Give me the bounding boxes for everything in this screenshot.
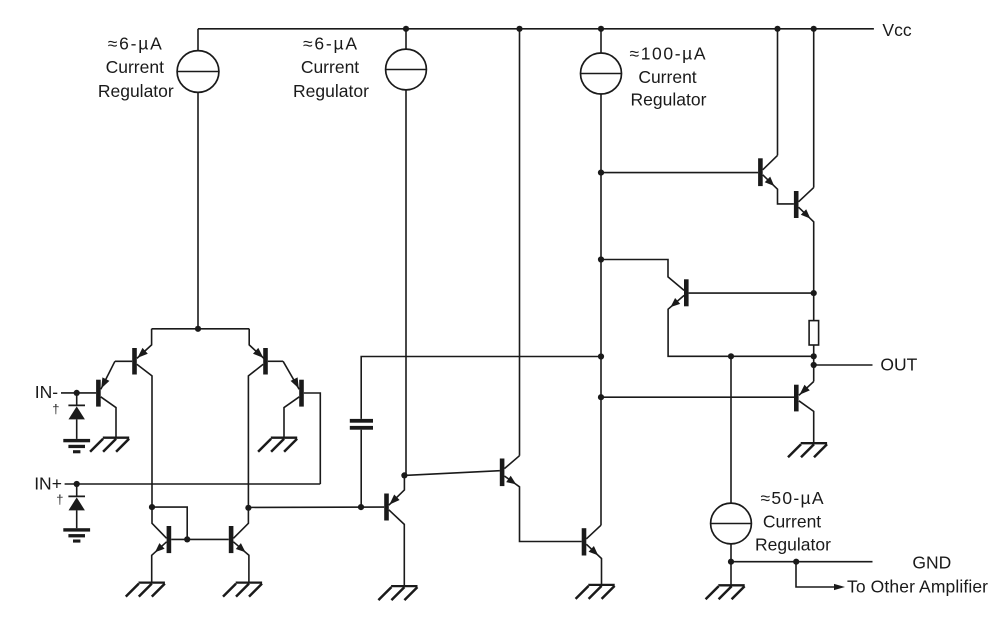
svg-text:†: † [52,401,59,416]
svg-text:≈100-µA: ≈100-µA [630,43,706,63]
svg-text:IN+: IN+ [34,474,62,494]
svg-text:Regulator: Regulator [293,81,369,101]
svg-text:†: † [56,492,63,507]
svg-text:IN-: IN- [35,382,59,402]
svg-text:GND: GND [912,553,951,573]
svg-text:≈6-µA: ≈6-µA [108,33,162,53]
svg-text:Vcc: Vcc [882,20,911,40]
svg-text:Current: Current [301,57,359,77]
svg-text:Regulator: Regulator [98,81,174,101]
svg-text:Current: Current [763,511,821,531]
svg-text:OUT: OUT [880,355,917,375]
svg-text:≈6-µA: ≈6-µA [303,33,357,53]
svg-text:Current: Current [638,67,696,87]
svg-text:Regulator: Regulator [755,534,831,554]
svg-text:Regulator: Regulator [631,89,707,109]
svg-text:To Other Amplifier: To Other Amplifier [847,576,988,596]
svg-text:Current: Current [106,57,164,77]
